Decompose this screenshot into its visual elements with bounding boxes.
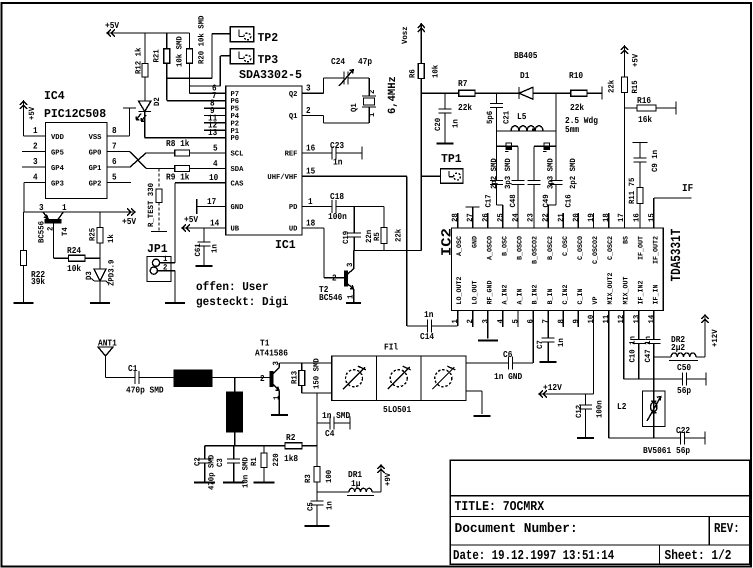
IC1 UB pin 14 wire [182, 218, 226, 228]
ground under D3 [90, 302, 110, 304]
capacitor C23 1n [302, 141, 362, 168]
svg-text:10: 10 [209, 173, 218, 183]
capacitor C2 470p SMD [194, 446, 217, 490]
svg-text:C23: C23 [330, 141, 344, 151]
svg-text:R3: R3 [304, 474, 313, 483]
svg-text:PIC12C508: PIC12C508 [44, 107, 106, 121]
+9V arrow [378, 464, 394, 492]
svg-text:22: 22 [542, 213, 551, 222]
svg-text:100n: 100n [328, 212, 347, 222]
svg-text:C24: C24 [331, 57, 346, 67]
resistor R21 10k SMD [153, 33, 185, 101]
capacitor C9 1n [633, 143, 661, 188]
resistor R24 10k [54, 246, 101, 274]
svg-text:C16: C16 [565, 194, 574, 207]
svg-text:UD: UD [289, 226, 298, 234]
svg-text:PD: PD [289, 204, 298, 212]
svg-text:offen: User: offen: User [196, 280, 269, 294]
svg-text:R_TEST 330: R_TEST 330 [147, 183, 156, 227]
svg-text:56p: 56p [676, 446, 690, 456]
transistor T2 BC546 [319, 251, 356, 304]
svg-text:56p: 56p [677, 386, 691, 396]
svg-text:C_OSCO2: C_OSCO2 [592, 236, 600, 264]
svg-text:P0: P0 [231, 134, 240, 143]
svg-text:C4: C4 [325, 429, 335, 439]
resistor R22 39k [21, 212, 46, 303]
zener diode D3 ZPD3.9 [85, 259, 117, 303]
crystal circuit wiring [324, 78, 370, 123]
+5V arrow above R15 [621, 45, 641, 77]
svg-text:7: 7 [542, 319, 551, 324]
svg-text:R25: R25 [89, 228, 98, 241]
svg-text:16k: 16k [638, 115, 653, 125]
svg-text:VDD: VDD [51, 134, 64, 142]
svg-text:11: 11 [602, 315, 611, 324]
svg-text:T4: T4 [61, 227, 70, 236]
IC1 PD pin 1 wire with C18 [302, 197, 332, 207]
svg-text:R6: R6 [409, 69, 418, 78]
filter FIl 5LO501 [332, 343, 466, 416]
IC2 pin 11 MIX_OUT2 wire [608, 311, 610, 439]
svg-text:C1: C1 [128, 364, 138, 374]
svg-text:20: 20 [572, 213, 581, 222]
svg-text:4: 4 [33, 173, 38, 183]
resistor R9 1k [158, 159, 226, 183]
wire TP3 to R20 [190, 56, 231, 86]
svg-text:B_OSCO2: B_OSCO2 [532, 236, 540, 264]
svg-text:JP1: JP1 [147, 242, 168, 256]
svg-text:2: 2 [47, 226, 56, 231]
svg-text:17: 17 [207, 197, 216, 207]
ground at FIl output [474, 415, 491, 417]
IC IC4 PIC12C508 body [44, 89, 107, 199]
IC1 Q1 pin 2 wire [302, 106, 324, 116]
test point TP1 [421, 152, 463, 183]
svg-text:+5V: +5V [28, 107, 37, 120]
svg-text:24: 24 [512, 213, 521, 222]
svg-text:LO_OUT2: LO_OUT2 [456, 277, 464, 305]
svg-text:C18: C18 [330, 192, 344, 202]
ground under C7 [540, 361, 557, 363]
coil tap row [497, 143, 557, 152]
svg-text:gesteckt: Digi: gesteckt: Digi [196, 295, 288, 309]
svg-text:14: 14 [210, 218, 220, 228]
svg-text:C_IN: C_IN [577, 289, 585, 305]
svg-text:FIl: FIl [384, 343, 399, 353]
svg-text:27: 27 [466, 213, 475, 222]
wire FIl lower right to ground [466, 391, 482, 414]
transistor T1 AT41586 [255, 339, 288, 416]
svg-text:3: 3 [39, 203, 44, 213]
svg-text:GP5: GP5 [51, 149, 64, 158]
svg-text:C14: C14 [420, 332, 435, 342]
IC IC2 TDA5331T body [440, 228, 686, 311]
svg-text:LO_OUT: LO_OUT [471, 281, 479, 305]
svg-text:3p3 SMD: 3p3 SMD [504, 158, 513, 189]
svg-text:1k8: 1k8 [284, 454, 298, 464]
svg-text:R1: R1 [250, 457, 259, 466]
resistor R13 150 SMD [291, 358, 322, 393]
ground under JP1 [165, 302, 185, 304]
IC4 pin 6 GP1 wire [107, 157, 130, 167]
capacitor C61 1n [194, 228, 220, 266]
svg-text:6,4MHz: 6,4MHz [387, 76, 399, 114]
svg-text:5LO501: 5LO501 [383, 405, 412, 415]
svg-text:SCL: SCL [231, 150, 244, 159]
svg-text:IF_IN2: IF_IN2 [637, 281, 645, 305]
IC1 UHF/VHF pin 15 wire [302, 167, 407, 177]
svg-text:R24: R24 [67, 246, 82, 256]
capacitor C7 1n [536, 311, 566, 363]
svg-text:REV:: REV: [714, 522, 740, 537]
resistor R20 10k SMD [187, 15, 207, 93]
capacitor C10 1n [629, 311, 646, 380]
svg-text:6: 6 [112, 157, 117, 167]
svg-text:R13: R13 [291, 371, 300, 384]
svg-text:10k: 10k [432, 65, 441, 78]
ground under C61 [196, 265, 213, 267]
svg-text:13: 13 [208, 128, 217, 138]
svg-text:R20 10k SMD: R20 10k SMD [198, 15, 207, 64]
svg-text:14: 14 [647, 315, 656, 324]
text gesteckt: Digi [196, 295, 288, 309]
svg-text:23: 23 [527, 213, 536, 222]
svg-text:BC546: BC546 [319, 293, 343, 303]
svg-text:C21: C21 [503, 111, 512, 124]
ground under C12 [577, 437, 594, 439]
svg-text:+5V: +5V [105, 21, 120, 31]
svg-text:GP2: GP2 [89, 180, 102, 189]
+5V arrow at UB [182, 215, 199, 232]
capacitor C21 5p6 [486, 93, 512, 131]
svg-text:R16: R16 [637, 96, 651, 106]
svg-text:C6: C6 [503, 350, 512, 360]
capacitor C22 56p [676, 426, 705, 456]
wire +5V row at T4 [24, 211, 133, 213]
svg-text:1n: 1n [326, 501, 335, 510]
svg-text:Date: 19.12.1997 13:51:14: Date: 19.12.1997 13:51:14 [453, 549, 614, 564]
svg-text:22k: 22k [570, 103, 585, 113]
svg-text:16: 16 [632, 213, 641, 222]
svg-text:A_IN2: A_IN2 [502, 285, 510, 305]
svg-text:C2: C2 [194, 457, 203, 466]
svg-text:1k: 1k [107, 234, 116, 243]
IC2 bottom pin stubs and numbers [451, 311, 656, 328]
wire crossover GP0/GP1 to SDA/SCL [130, 152, 158, 169]
resistor R7 22k [458, 79, 518, 113]
ground under C20 [437, 143, 454, 145]
svg-text:C20: C20 [434, 118, 443, 131]
ground under C2 [194, 482, 215, 484]
svg-text:A_OSC: A_OSC [456, 236, 464, 256]
svg-text:1n: 1n [452, 119, 461, 128]
svg-text:CAS: CAS [231, 179, 244, 188]
svg-text:1: 1 [308, 197, 313, 207]
capacitor C19 22n [342, 207, 374, 251]
text offen: User [196, 280, 269, 294]
svg-text:10: 10 [587, 315, 596, 324]
svg-text:8: 8 [557, 319, 566, 324]
resistor R25 1k [89, 212, 117, 269]
svg-text:BV5061: BV5061 [643, 446, 672, 456]
resistor R6 10k [409, 64, 441, 251]
svg-text:2: 2 [260, 374, 265, 384]
svg-text:2: 2 [306, 106, 311, 116]
svg-text:R11 75: R11 75 [628, 177, 637, 204]
IC1 Q2 pin 3 wire [302, 84, 324, 94]
svg-text:R8 1k: R8 1k [166, 139, 190, 149]
IC4 pin 5 GP2 stub [107, 173, 131, 183]
capacitor C4 1n SMD [317, 393, 351, 439]
rev text [714, 522, 740, 537]
svg-text:Q2: Q2 [289, 90, 298, 99]
document number text [455, 522, 578, 537]
svg-text:5p6: 5p6 [486, 111, 495, 124]
svg-text:TITLE: 7OCMRX: TITLE: 7OCMRX [455, 500, 545, 515]
svg-text:REF: REF [285, 151, 298, 159]
svg-text:B_OSC: B_OSC [502, 236, 510, 256]
svg-text:D3: D3 [85, 271, 94, 280]
svg-text:3: 3 [481, 319, 490, 324]
Vosz arrow [401, 23, 425, 64]
svg-text:UB: UB [231, 226, 240, 234]
svg-text:C_OSC2: C_OSC2 [607, 236, 615, 260]
svg-text:22k: 22k [458, 103, 473, 113]
svg-text:1n: 1n [333, 158, 342, 168]
resistor R8 1k [158, 139, 226, 156]
stripline filter block 2 [227, 378, 243, 446]
capacitor C14 1n [407, 310, 458, 342]
svg-text:100: 100 [325, 470, 334, 483]
svg-text:2: 2 [163, 264, 168, 273]
svg-text:C50: C50 [677, 363, 691, 373]
jumper JP1 [147, 242, 171, 282]
resistor R_TEST 330 (dashed) [147, 169, 167, 232]
svg-text:5mm: 5mm [565, 125, 580, 135]
wire stripline to T1 base [212, 377, 270, 379]
svg-text:3: 3 [346, 262, 355, 267]
capacitor C20 1n [434, 93, 461, 143]
svg-text:16: 16 [306, 143, 315, 153]
svg-text:C19: C19 [342, 231, 351, 244]
wire JP1 pin1 to IC1 CAS [171, 183, 175, 263]
svg-text:22k: 22k [608, 80, 617, 93]
IC2 pin 27 GND terminal [466, 207, 480, 228]
svg-text:15: 15 [306, 167, 315, 177]
resistor R5 22k [373, 207, 404, 251]
LED D2 [136, 97, 162, 121]
resistor R2 1k8 [284, 433, 317, 464]
IC4 pin 3 GP4 wire [22, 157, 46, 167]
varactor diode BV5061 in box L2 [617, 391, 672, 456]
svg-text:IF_OUT: IF_OUT [637, 236, 645, 260]
svg-text:R12 1k: R12 1k [135, 47, 144, 74]
wire main oscillator row [421, 92, 458, 94]
svg-text:Q1: Q1 [350, 103, 359, 112]
svg-text:C5: C5 [307, 502, 316, 511]
svg-text:B_IN: B_IN [547, 289, 555, 305]
svg-text:B_OSCO: B_OSCO [517, 236, 525, 260]
wire R20 to IC1 P7 pin6 [190, 92, 226, 94]
svg-text:UHF/VHF: UHF/VHF [267, 173, 298, 182]
svg-text:17: 17 [617, 213, 626, 222]
svg-text:+12V: +12V [543, 383, 562, 393]
svg-text:21: 21 [557, 213, 566, 222]
svg-text:7: 7 [212, 91, 217, 101]
wire C22 row [609, 437, 681, 439]
svg-text:47p: 47p [358, 57, 372, 67]
capacitor C6 1n GND [466, 350, 533, 382]
title block [450, 460, 749, 564]
wire R13 bottom row [302, 392, 332, 394]
trimmer capacitor C24 47p [331, 57, 372, 86]
IC1 P-port pin stubs [204, 84, 226, 138]
svg-text:VP: VP [592, 297, 600, 305]
svg-text:C17: C17 [485, 194, 494, 207]
svg-text:Vosz: Vosz [401, 26, 410, 44]
svg-text:1n GND: 1n GND [494, 372, 523, 382]
svg-text:2: 2 [33, 142, 38, 152]
svg-text:5: 5 [512, 319, 521, 324]
svg-text:GP1: GP1 [89, 164, 102, 173]
svg-text:R5: R5 [373, 232, 382, 241]
test point TP2 [230, 27, 278, 45]
capacitor C49 3p3 SMD [528, 146, 556, 228]
IC2 pin 10 VP wire [593, 311, 595, 395]
svg-text:+12V: +12V [711, 329, 720, 347]
capacitor C18 100n [328, 192, 384, 222]
svg-text:2p2 SMD: 2p2 SMD [569, 158, 578, 189]
svg-text:1: 1 [62, 203, 67, 213]
+5V rail arrow top left [105, 21, 190, 37]
antenna ANT1 [98, 339, 117, 378]
svg-text:BS: BS [622, 236, 630, 244]
wire JP1 pin2 to ground [171, 271, 175, 303]
svg-text:1: 1 [368, 112, 377, 117]
svg-text:C47 1n: C47 1n [644, 336, 653, 363]
svg-text:VSS: VSS [89, 133, 102, 142]
svg-text:1n: 1n [211, 244, 220, 253]
svg-text:C12: C12 [575, 405, 584, 418]
svg-text:13: 13 [632, 315, 641, 324]
+12V arrow top right [702, 314, 721, 357]
svg-text:A_OSCO: A_OSCO [486, 236, 494, 260]
svg-text:39k: 39k [31, 277, 46, 287]
svg-text:T1: T1 [260, 339, 270, 349]
ground under R1 [254, 482, 275, 484]
svg-text:R7: R7 [458, 79, 467, 89]
svg-text:BC556: BC556 [38, 221, 47, 243]
svg-text:Document Number:: Document Number: [455, 522, 578, 537]
svg-text:25: 25 [496, 213, 505, 222]
svg-text:19: 19 [587, 213, 596, 222]
svg-text:100n: 100n [596, 400, 605, 418]
wire oscillator row under R5 [354, 250, 422, 252]
stripline filter block 1 [174, 370, 212, 387]
svg-text:C22: C22 [676, 426, 690, 436]
+5V power arrow at IC4 pin 1 [20, 100, 37, 136]
svg-text:MIX_OUT: MIX_OUT [622, 277, 630, 305]
resistor R3 100 [304, 446, 334, 492]
IC2 pin 3 RF_GND ground [478, 311, 498, 341]
IC IC1 SDA3302-5 body [226, 68, 302, 252]
IC2 pin 6 wire to C6 [532, 311, 534, 364]
IC2 top pin stubs and numbers [451, 213, 656, 228]
ground under T1 [271, 414, 288, 416]
svg-text:R21: R21 [153, 49, 162, 62]
svg-text:+9V: +9V [384, 473, 393, 486]
IC4 pin 8 VSS wire and terminal [107, 108, 136, 136]
svg-text:SDA: SDA [231, 165, 244, 174]
capacitor C5 1n [307, 492, 335, 526]
svg-text:1n: 1n [424, 310, 433, 320]
svg-text:1μ: 1μ [351, 479, 360, 489]
capacitor C48 3p3 SMD [504, 146, 525, 228]
svg-text:ZPD3.9: ZPD3.9 [108, 259, 117, 286]
svg-text:2: 2 [368, 89, 377, 94]
svg-text:C7: C7 [536, 340, 545, 349]
svg-text:+5V: +5V [122, 217, 137, 227]
+5V arrow right of T4 [122, 209, 137, 228]
transistor T4 BC556 [38, 203, 71, 258]
svg-text:B_IN2: B_IN2 [532, 285, 540, 305]
svg-text:+5V: +5V [632, 54, 641, 67]
wire antenna to C1 [106, 377, 136, 379]
crystal Q1 6.4MHz [350, 76, 399, 117]
svg-text:3: 3 [33, 157, 38, 167]
wire D2 cathode to IC1 P0 [145, 112, 226, 138]
svg-text:IC1: IC1 [275, 238, 296, 252]
inductor DR2 2u2 [654, 335, 705, 361]
ground under T2 [346, 302, 361, 304]
svg-text:1: 1 [33, 126, 38, 136]
IC1 UD pin 18 wire [302, 218, 324, 277]
wire R2 row left [205, 445, 285, 447]
capacitor C12 100n [575, 394, 605, 438]
svg-text:9: 9 [572, 319, 581, 324]
svg-text:C_IN2: C_IN2 [562, 285, 570, 305]
svg-text:2μ2: 2μ2 [671, 343, 685, 353]
svg-text:10k: 10k [67, 264, 82, 274]
svg-text:AT41586: AT41586 [255, 349, 288, 359]
svg-text:C10 1n: C10 1n [629, 336, 638, 363]
svg-text:BB405: BB405 [514, 51, 538, 61]
IC2 pin 12 MIX_OUT wire [624, 311, 683, 380]
svg-text:TDA5331T: TDA5331T [669, 229, 685, 282]
resistor R12 1k [135, 33, 149, 101]
svg-text:C9 1n: C9 1n [651, 150, 660, 172]
svg-text:C_OSC: C_OSC [562, 236, 570, 256]
resistor R11 75 [628, 177, 643, 228]
svg-text:1: 1 [451, 319, 460, 324]
svg-text:R10: R10 [569, 71, 583, 81]
svg-text:RF_GND: RF_GND [486, 280, 494, 304]
svg-text:Sheet: 1/2: Sheet: 1/2 [665, 549, 732, 564]
svg-text:150 SMD: 150 SMD [313, 358, 322, 389]
svg-text:28: 28 [451, 213, 460, 222]
svg-text:IC4: IC4 [44, 89, 65, 103]
wire C4 junction down to R2 row [316, 423, 318, 446]
test point TP3 [230, 49, 278, 67]
svg-text:18: 18 [306, 218, 315, 228]
svg-text:IF: IF [682, 183, 693, 195]
svg-text:GP0: GP0 [89, 149, 102, 158]
svg-text:26: 26 [481, 213, 490, 222]
svg-text:TP3: TP3 [258, 53, 279, 67]
svg-text:3: 3 [306, 84, 311, 94]
svg-text:+5V: +5V [184, 215, 199, 225]
svg-text:2: 2 [466, 319, 475, 324]
